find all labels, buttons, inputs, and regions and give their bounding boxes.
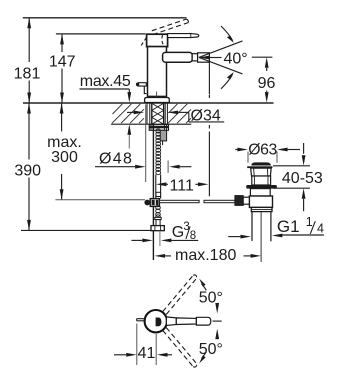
svg-text:G: G bbox=[172, 224, 184, 241]
svg-text:4: 4 bbox=[317, 221, 324, 235]
svg-text:50°: 50° bbox=[199, 341, 223, 358]
svg-text:111: 111 bbox=[170, 177, 194, 194]
svg-text:1: 1 bbox=[306, 215, 313, 229]
svg-text:40-53: 40-53 bbox=[282, 170, 323, 187]
svg-text:50°: 50° bbox=[199, 290, 223, 307]
svg-text:41: 41 bbox=[138, 345, 156, 362]
svg-text:Ø48: Ø48 bbox=[99, 151, 133, 168]
svg-text:147: 147 bbox=[49, 53, 76, 70]
svg-text:390: 390 bbox=[14, 162, 41, 179]
svg-text:max.180: max.180 bbox=[175, 247, 236, 264]
svg-text:Ø63: Ø63 bbox=[248, 141, 277, 158]
svg-text:96: 96 bbox=[258, 75, 276, 92]
svg-text:300: 300 bbox=[51, 149, 78, 166]
svg-text:Ø34: Ø34 bbox=[191, 107, 221, 124]
svg-text:8: 8 bbox=[190, 230, 196, 242]
svg-text:G1: G1 bbox=[277, 217, 300, 236]
svg-text:40°: 40° bbox=[224, 50, 248, 67]
svg-text:max.45: max.45 bbox=[80, 73, 131, 90]
svg-text:181: 181 bbox=[14, 65, 41, 82]
